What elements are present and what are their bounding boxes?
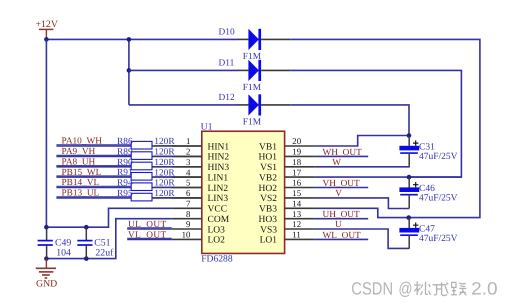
svg-text:+12V: +12V — [36, 19, 58, 30]
net label PA9_VH — [56, 147, 131, 157]
pin 3 stub — [172, 166, 202, 168]
capacitor C49 104 — [38, 227, 72, 258]
svg-text:4: 4 — [186, 167, 191, 177]
svg-text:UL_OUT: UL_OUT — [128, 220, 167, 230]
svg-text:R86: R86 — [117, 137, 133, 147]
pin 19 stub — [285, 155, 315, 157]
junction ground rail at C51 — [84, 256, 89, 261]
svg-text:HO3: HO3 — [259, 215, 278, 225]
capacitor C31 47uF/25V — [399, 136, 457, 167]
net label WL_OUT — [323, 231, 362, 241]
wire D11 cathode to C46 junction — [290, 70, 461, 177]
capacitor C47 47uF/25V — [399, 218, 457, 249]
svg-text:47uF/25V: 47uF/25V — [419, 194, 458, 204]
wire net VL_OUT — [127, 238, 172, 240]
svg-text:18: 18 — [292, 157, 301, 167]
pin 5 stub — [172, 187, 202, 189]
svg-text:16: 16 — [292, 178, 301, 188]
svg-text:U1: U1 — [201, 122, 213, 133]
net label PA10_WH — [56, 137, 131, 147]
net label W — [332, 158, 341, 168]
svg-text:FD6288: FD6288 — [201, 254, 233, 265]
svg-text:11: 11 — [292, 230, 300, 240]
svg-text:VL_OUT: VL_OUT — [128, 230, 167, 240]
svg-text:VB2: VB2 — [259, 173, 277, 183]
svg-text:R94: R94 — [117, 179, 133, 189]
svg-text:VS2: VS2 — [260, 194, 277, 204]
svg-text:10: 10 — [182, 230, 191, 240]
wire net U VS3 to C47 bottom — [315, 229, 409, 248]
junction C31 top node — [407, 133, 412, 138]
pin 15 stub — [285, 197, 315, 199]
pin 6 stub — [172, 197, 202, 199]
pin 1 stub — [172, 145, 202, 147]
svg-text:47uF/25V: 47uF/25V — [419, 234, 458, 244]
value label 120R — [154, 189, 175, 199]
wire net UL_OUT — [127, 228, 172, 230]
svg-text:WL_OUT: WL_OUT — [323, 231, 362, 241]
svg-text:8: 8 — [186, 209, 191, 219]
wire net VH_OUT — [315, 187, 369, 189]
svg-text:47uF/25V: 47uF/25V — [419, 152, 458, 162]
net label V — [335, 189, 342, 199]
pin 20 stub — [285, 145, 315, 147]
wire resistor R89 lead to pin — [152, 155, 202, 157]
svg-text:U: U — [335, 220, 342, 230]
junction +12V node A — [44, 37, 49, 42]
power symbol +12V — [36, 19, 58, 39]
wire net PA9_VH row — [56, 155, 152, 157]
wire D12 anode feed — [129, 104, 238, 106]
wire +12V rail to D10 anode — [46, 38, 237, 40]
net label UL_OUT — [127, 220, 172, 230]
resistor R90 body — [131, 162, 152, 170]
svg-text:F1M: F1M — [243, 83, 262, 93]
resistor R95 body — [131, 193, 152, 201]
junction ground rail at C49 — [44, 256, 49, 261]
svg-text:VCC: VCC — [208, 205, 228, 215]
svg-text:19: 19 — [292, 147, 301, 157]
svg-text:LIN3: LIN3 — [208, 194, 229, 204]
svg-text:2.0: 2.0 — [471, 279, 498, 299]
wire net WH_OUT — [315, 155, 369, 157]
svg-text:V: V — [335, 189, 342, 199]
pin 11 stub — [285, 238, 315, 240]
svg-text:C47: C47 — [419, 225, 435, 235]
svg-text:2: 2 — [186, 147, 190, 157]
pin 12 stub — [285, 228, 315, 230]
pin 17 stub — [285, 176, 315, 178]
svg-text:C46: C46 — [419, 184, 435, 194]
pin 18 stub — [285, 166, 315, 168]
op-amp driver IC U1 FD6288 body — [201, 122, 285, 265]
wire net PB13_UL row — [56, 197, 152, 199]
wire +12V vertical down to VCC rail — [45, 39, 47, 227]
pin 7 stub — [172, 207, 202, 209]
value label 120R — [154, 179, 175, 189]
wire net PB14_VL row — [56, 187, 152, 189]
junction VCC rail at C51 — [84, 225, 89, 230]
net label PB15_WL — [56, 168, 131, 178]
wire resistor R90 lead to pin — [152, 166, 202, 168]
svg-text:D12: D12 — [219, 93, 235, 103]
pin 8 stub — [172, 218, 202, 220]
svg-text:HO2: HO2 — [259, 184, 278, 194]
wire net W VS1 to C31 bottom — [315, 166, 410, 168]
wire net WL_OUT — [315, 238, 369, 240]
wire VB3 pin14 to C47 junction — [315, 208, 409, 217]
value label 120R — [154, 137, 175, 147]
svg-text:14: 14 — [292, 199, 301, 209]
pin 10 stub — [172, 238, 202, 240]
net label UH_OUT — [323, 210, 361, 220]
svg-text:HIN2: HIN2 — [208, 153, 230, 163]
net label VL_OUT — [127, 230, 172, 240]
svg-text:5: 5 — [186, 178, 191, 188]
net label PB13_UL — [56, 189, 131, 199]
value label 120R — [154, 168, 175, 178]
svg-text:HIN3: HIN3 — [208, 163, 230, 173]
svg-text:@: @ — [398, 279, 412, 299]
diode D12 F1M — [219, 93, 291, 128]
svg-text:HO1: HO1 — [259, 153, 278, 163]
net label U — [335, 220, 342, 230]
svg-text:C31: C31 — [419, 143, 435, 153]
wire resistor R91 lead to pin — [152, 176, 202, 178]
svg-text:D11: D11 — [219, 58, 235, 68]
svg-text:9: 9 — [186, 219, 191, 229]
resistor R91 body — [131, 173, 152, 181]
wire net PA10_WH row — [56, 145, 152, 147]
ground GND — [36, 259, 58, 290]
pin 16 stub — [285, 187, 315, 189]
svg-text:15: 15 — [292, 188, 301, 198]
wire resistor R95 lead to pin — [152, 197, 202, 199]
svg-text:HIN1: HIN1 — [208, 142, 230, 152]
resistor R94 body — [131, 183, 152, 191]
svg-text:W: W — [332, 158, 341, 168]
wire COM pin8 to ground rail — [46, 219, 171, 259]
watermark CSDN — [351, 279, 497, 299]
svg-text:VB1: VB1 — [259, 142, 277, 152]
diode D10 F1M — [219, 27, 291, 62]
svg-text:COM: COM — [208, 215, 230, 225]
svg-text:R89: R89 — [117, 147, 133, 157]
wire resistor R94 lead to pin — [152, 187, 202, 189]
pin 2 stub — [172, 155, 202, 157]
diode D11 F1M — [219, 58, 291, 93]
junction C47 top node — [406, 215, 411, 220]
svg-text:13: 13 — [292, 209, 301, 219]
svg-text:7: 7 — [186, 199, 191, 209]
svg-text:6: 6 — [186, 188, 191, 198]
value label 120R — [154, 158, 175, 168]
svg-text:3: 3 — [186, 157, 191, 167]
svg-text:UH_OUT: UH_OUT — [323, 210, 361, 220]
svg-text:12: 12 — [292, 219, 301, 229]
junction VCC rail at C49 — [44, 225, 49, 230]
pin 4 stub — [172, 176, 202, 178]
junction at D11 anode branch — [127, 68, 132, 73]
svg-text:LO1: LO1 — [260, 236, 278, 246]
svg-text:LIN1: LIN1 — [208, 173, 229, 183]
pin 13 stub — [285, 218, 315, 220]
svg-text:22uf: 22uf — [95, 248, 114, 259]
wire VB2 pin17 to C46 junction and D11 — [315, 176, 462, 178]
svg-text:17: 17 — [292, 167, 301, 177]
value label 120R — [154, 148, 175, 158]
svg-text:R91: R91 — [117, 168, 133, 178]
svg-text:20: 20 — [292, 136, 301, 146]
junction C46 top node — [407, 175, 412, 180]
wire net PA8_UH row — [56, 166, 152, 168]
svg-text:LO2: LO2 — [208, 236, 226, 246]
junction at D10 anode branch — [127, 37, 132, 42]
wire branch vertical to D11 D12 anodes — [128, 39, 130, 105]
wire net V VS2 to C46 bottom — [315, 198, 410, 209]
svg-text:R95: R95 — [117, 189, 133, 199]
svg-text:LO3: LO3 — [208, 225, 226, 235]
svg-text:CSDN: CSDN — [351, 279, 393, 299]
pin 14 stub — [285, 207, 315, 209]
svg-text:GND: GND — [36, 279, 57, 290]
svg-text:VB3: VB3 — [259, 205, 277, 215]
svg-text:D10: D10 — [219, 27, 235, 37]
svg-text:F1M: F1M — [243, 118, 262, 128]
svg-text:WH_OUT: WH_OUT — [323, 148, 363, 158]
svg-text:R90: R90 — [117, 158, 133, 168]
svg-text:104: 104 — [56, 248, 71, 259]
svg-text:VS1: VS1 — [260, 163, 277, 173]
wire net UH_OUT — [315, 218, 369, 220]
net label PA8_UH — [56, 158, 131, 168]
pin 9 stub — [172, 228, 202, 230]
wire resistor R86 lead to pin — [152, 145, 202, 147]
capacitor C51 22uf — [77, 227, 114, 258]
svg-text:1: 1 — [186, 136, 190, 146]
wire net PB15_WL row — [56, 176, 152, 178]
wire D12 cathode to C31 junction — [290, 105, 409, 136]
wire D10 cathode to right rail — [290, 39, 480, 217]
net label PB14_VL — [56, 178, 131, 188]
svg-text:VH_OUT: VH_OUT — [323, 179, 361, 189]
net label VH_OUT — [323, 179, 361, 189]
resistor R89 body — [131, 152, 152, 160]
resistor R86 body — [131, 141, 152, 149]
wire VCC pin7 to cap rail — [46, 208, 171, 227]
wire D11 anode feed — [129, 69, 238, 71]
svg-text:LIN2: LIN2 — [208, 184, 229, 194]
svg-text:VS3: VS3 — [260, 225, 277, 235]
net label WH_OUT — [323, 148, 363, 158]
capacitor C46 47uF/25V — [399, 177, 457, 208]
wire VB1 pin20 to C31 junction — [315, 136, 409, 147]
